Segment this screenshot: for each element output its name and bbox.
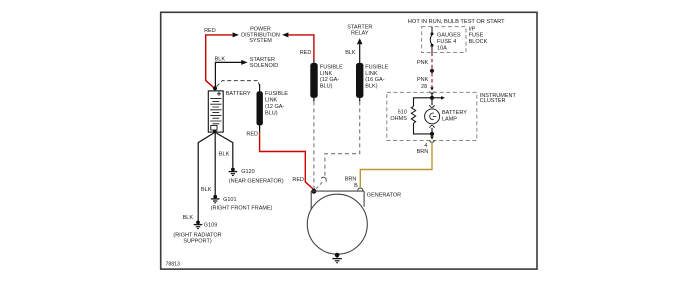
svg-text:GENERATOR: GENERATOR — [367, 192, 401, 198]
svg-text:SUPPORT): SUPPORT) — [183, 239, 211, 245]
ground G101 — [211, 195, 220, 203]
svg-text:FUSE 4: FUSE 4 — [437, 39, 456, 45]
wire lamp bottom lead — [431, 128, 433, 134]
wire PNK fuse to splice — [431, 53, 433, 69]
svg-text:PNK: PNK — [417, 60, 429, 66]
wire BRN cluster to generator — [360, 142, 432, 187]
svg-text:BATTERY: BATTERY — [442, 110, 467, 116]
label fuse — [437, 33, 461, 52]
wire BLK battery to G101 — [214, 133, 216, 195]
svg-text:FUSE: FUSE — [469, 33, 484, 39]
svg-text:LINK: LINK — [365, 71, 378, 77]
svg-text:B: B — [354, 183, 358, 189]
svg-text:510: 510 — [398, 110, 407, 116]
arrow to power distribution (right) — [282, 32, 288, 37]
border frame (decorative) — [161, 12, 537, 269]
svg-text:78813: 78813 — [166, 261, 181, 267]
svg-text:(12 GA-: (12 GA- — [320, 77, 339, 83]
svg-text:LAMP: LAMP — [442, 116, 457, 122]
connector generator B terminal — [358, 188, 363, 190]
svg-text:28: 28 — [421, 84, 427, 90]
connector at cluster top — [430, 87, 434, 93]
connector lamp bottom — [430, 126, 435, 128]
svg-text:FUSIBLE: FUSIBLE — [365, 65, 388, 71]
svg-text:HOT IN RUN, BULB TEST OR START: HOT IN RUN, BULB TEST OR START — [408, 19, 505, 25]
svg-text:BLK: BLK — [219, 151, 230, 157]
svg-text:10A: 10A — [437, 45, 447, 51]
svg-text:RED: RED — [292, 177, 304, 183]
wire dashed connector to junction — [316, 182, 323, 189]
lamp BATTERY LAMP — [425, 109, 440, 124]
svg-text:LINK: LINK — [265, 98, 278, 104]
svg-text:I/P: I/P — [469, 26, 476, 32]
wire RED fusible link to power distribution — [288, 35, 314, 60]
svg-text:SOLENOID: SOLENOID — [250, 63, 278, 69]
svg-text:LINK: LINK — [320, 71, 333, 77]
svg-text:G120: G120 — [241, 169, 254, 175]
wire PNK splice to cluster — [431, 73, 433, 88]
arrow to starter solenoid — [241, 60, 247, 65]
svg-text:G101: G101 — [223, 197, 236, 203]
junction generator ground — [335, 253, 340, 258]
fusible link (12 GA-BLU, middle) — [310, 60, 317, 102]
svg-text:BLK: BLK — [345, 50, 356, 56]
connector lamp top — [430, 105, 435, 107]
svg-text:BLU): BLU) — [320, 84, 333, 90]
wire RED fusible link to generator — [260, 132, 315, 190]
junction battery positive — [213, 86, 217, 90]
svg-text:BLU): BLU) — [265, 110, 278, 116]
resistor 510 ohms — [411, 106, 415, 123]
wire BLK starter relay to fusible link — [359, 44, 361, 63]
svg-text:RED: RED — [300, 50, 312, 56]
wire BLK battery to starter solenoid — [215, 62, 241, 88]
wire lamp top lead — [431, 98, 433, 105]
svg-text:BRN: BRN — [417, 149, 429, 155]
svg-text:BLK): BLK) — [365, 84, 377, 90]
svg-text:G109: G109 — [204, 223, 217, 229]
label fusible link (middle) — [320, 65, 343, 90]
label fusible link (16 GA-BLK) — [365, 65, 388, 90]
svg-text:(RIGHT FRONT FRAME): (RIGHT FRONT FRAME) — [211, 205, 273, 211]
battery — [208, 91, 223, 132]
svg-text:SYSTEM: SYSTEM — [249, 38, 272, 44]
svg-text:FUSIBLE: FUSIBLE — [265, 91, 288, 97]
node starter solenoid label — [250, 57, 278, 69]
label 510 OHMS — [390, 110, 407, 122]
svg-text:RED: RED — [204, 28, 216, 34]
ground G109 — [194, 221, 203, 229]
svg-text:RED: RED — [246, 132, 258, 138]
label instrument cluster — [480, 93, 517, 104]
svg-text:BLK: BLK — [183, 215, 194, 221]
svg-text:PNK: PNK — [417, 77, 429, 83]
svg-text:BRN: BRN — [345, 177, 357, 183]
junction battery negative — [213, 130, 217, 134]
fusible link (12 GA-BLU, battery) — [257, 84, 263, 132]
wire dashed middle fusible link to generator — [313, 101, 316, 190]
svg-text:BLK: BLK — [201, 187, 212, 193]
label PNK 28 — [417, 77, 429, 90]
label I/P fuse block — [469, 26, 488, 44]
svg-text:BLOCK: BLOCK — [469, 39, 488, 45]
wire dashed 16GA fusible link to generator — [325, 101, 360, 177]
svg-text:BATTERY: BATTERY — [226, 91, 251, 97]
wire dashed battery to fusible link — [217, 81, 259, 87]
wire BLK battery to G120 — [216, 133, 232, 167]
svg-text:(RIGHT RADIATOR: (RIGHT RADIATOR — [173, 232, 221, 238]
fuse GAUGES FUSE 4 — [430, 27, 433, 53]
wire BLK battery to G109 — [198, 133, 213, 221]
node starter relay label — [347, 25, 372, 37]
arrow to starter relay — [357, 38, 363, 44]
ground G120 — [229, 168, 238, 176]
connector at generator (dashed wire) — [321, 177, 326, 181]
label right radiator support — [173, 232, 221, 244]
wire resistor to bottom node — [414, 123, 433, 134]
junction cluster top — [430, 96, 434, 100]
arrow to other cluster circuits — [432, 96, 445, 100]
instrument cluster dashed outline — [387, 92, 477, 140]
svg-text:(NEAR GENERATOR): (NEAR GENERATOR) — [229, 178, 284, 184]
svg-text:FUSIBLE: FUSIBLE — [320, 65, 343, 71]
wire RED battery to power distribution — [206, 35, 234, 88]
wire into cluster — [431, 92, 433, 96]
svg-text:CLUSTER: CLUSTER — [480, 98, 506, 104]
svg-text:BLK: BLK — [215, 56, 226, 62]
arrow to power distribution (left) — [233, 32, 239, 37]
svg-text:GAUGES: GAUGES — [437, 33, 461, 39]
junction cluster bottom — [430, 132, 434, 136]
ground (generator case) — [332, 255, 341, 263]
label fusible link (battery) — [265, 91, 288, 116]
fusible link (16 GA-BLK) — [356, 63, 363, 102]
label battery lamp — [442, 110, 467, 122]
svg-text:STARTER: STARTER — [347, 25, 372, 31]
junction splice — [430, 69, 434, 73]
junction generator BAT terminal — [311, 189, 316, 194]
svg-text:RELAY: RELAY — [351, 31, 369, 37]
connector at cluster bottom — [430, 134, 434, 143]
svg-text:(12 GA-: (12 GA- — [265, 104, 284, 110]
generator — [307, 191, 367, 254]
fuse box dashed outline — [422, 27, 466, 53]
svg-text:OHMS: OHMS — [390, 116, 407, 122]
wire resistor branch — [414, 98, 433, 107]
node power distribution label — [241, 27, 280, 45]
svg-text:(16 GA-: (16 GA- — [365, 77, 384, 83]
